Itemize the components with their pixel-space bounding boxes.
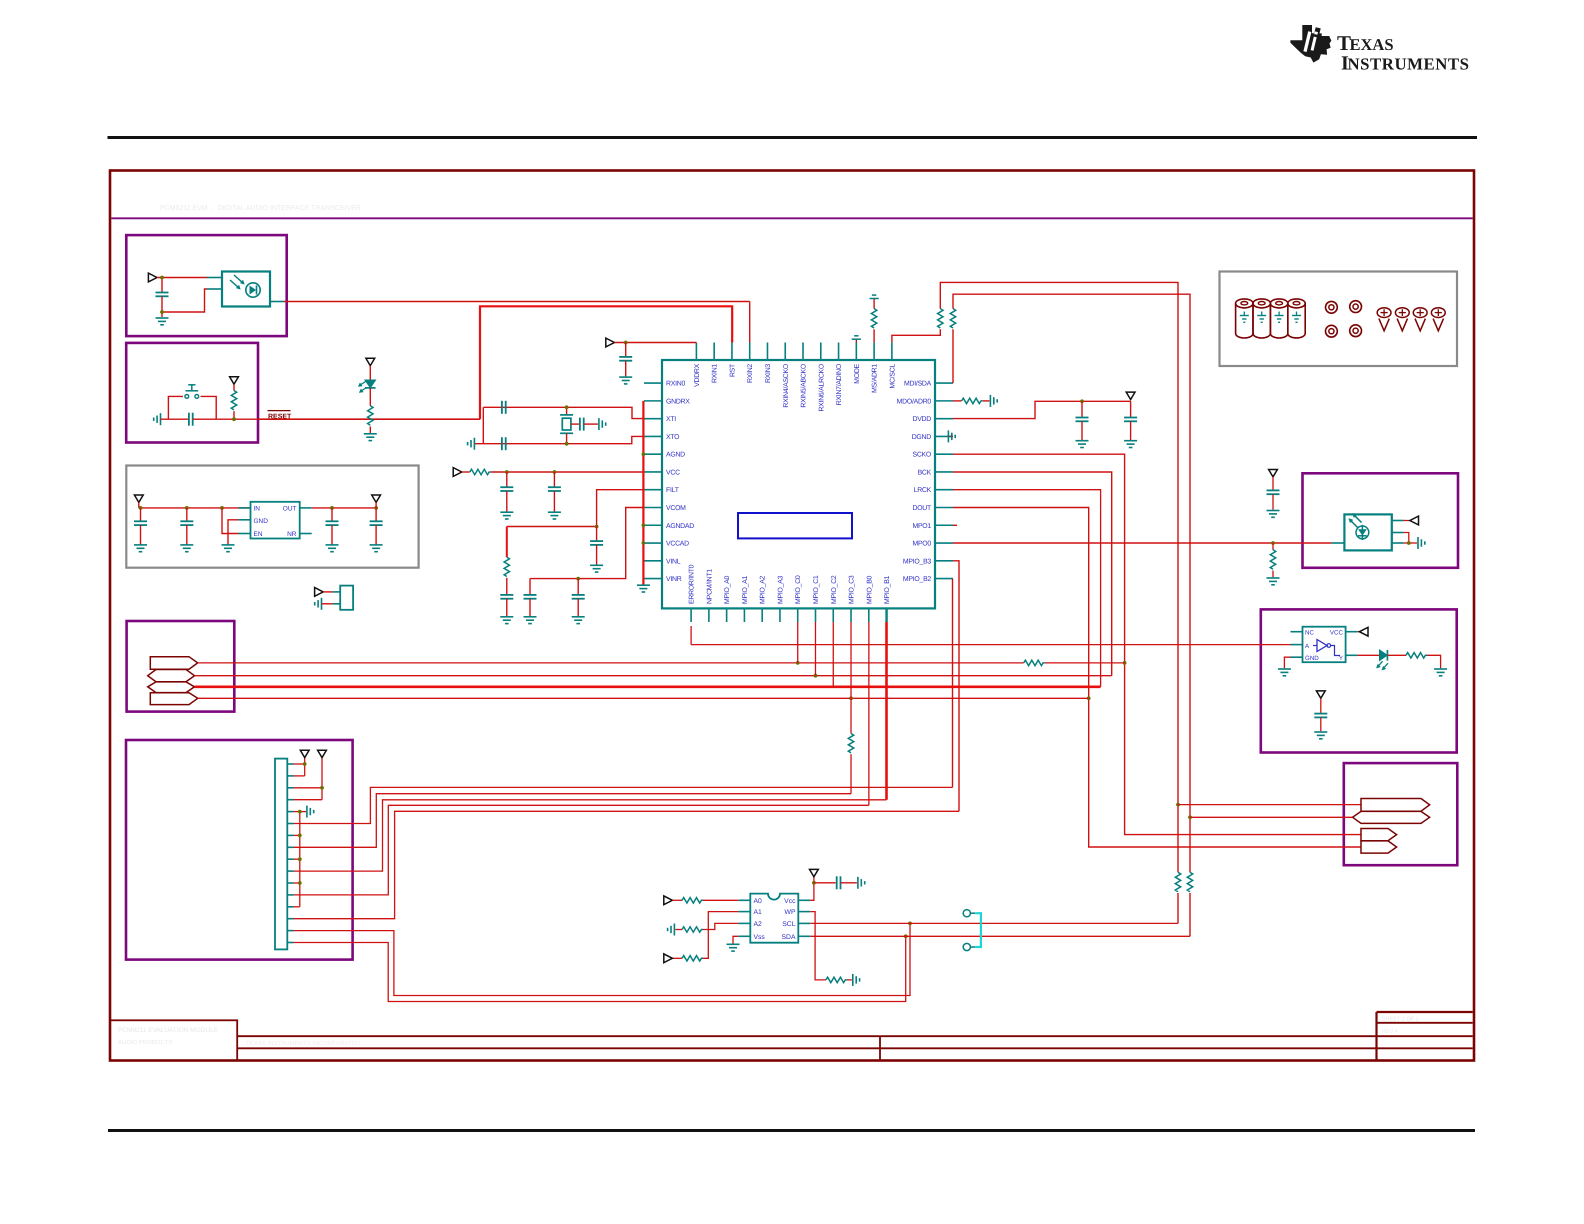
wire MPIO_B3: [953, 561, 959, 812]
output net flag block box: [1344, 763, 1458, 865]
svg-text:RXIN4/ASCKO: RXIN4/ASCKO: [783, 363, 790, 407]
net flag DOUT out: [1361, 841, 1397, 853]
header block box: [126, 740, 353, 960]
pin reg OUT wire: [300, 507, 312, 509]
page bottom rule: [108, 1129, 1475, 1132]
side ground MDO/ADR0: [989, 395, 991, 407]
net flag SCKO out: [1361, 829, 1397, 841]
pin eeprom A2: [738, 922, 750, 924]
wire MPIO_C0 net: [198, 662, 1024, 664]
svg-text:OUT: OUT: [283, 506, 297, 513]
svg-text:EXAS: EXAS: [1350, 35, 1394, 54]
svg-text:RXIN2: RXIN2: [747, 364, 754, 383]
power arrow reset pullup: [230, 377, 239, 384]
title block right box: [1375, 1012, 1377, 1061]
capacitor FILT: [596, 527, 598, 542]
ground VDDRX cap: [619, 376, 632, 378]
svg-text:GNDRX: GNDRX: [666, 398, 690, 405]
washer 4: [1350, 325, 1362, 337]
junction AGND bus: [642, 452, 646, 456]
frame inner top line: [111, 217, 1472, 219]
standoff 4: [1288, 303, 1305, 338]
pin eeprom SDA: [798, 935, 810, 937]
power arrow regulator input: [134, 495, 143, 502]
pin eeprom SCL: [798, 922, 810, 924]
capacitor inverter bypass: [1320, 698, 1322, 713]
wire VCOM: [530, 508, 644, 579]
capacitor VCC bypass 2: [553, 472, 555, 487]
wire SCKO: [953, 454, 1361, 834]
wire LRCK: [953, 490, 1101, 687]
svg-text:AGND: AGND: [666, 452, 685, 459]
net flag RXOUT1: [148, 670, 195, 682]
pin SCKO: [935, 453, 953, 455]
regulator block box: [126, 466, 418, 568]
pin VINR: [644, 578, 662, 580]
wire eeprom A0: [703, 899, 738, 901]
svg-text:MPIO_A2: MPIO_A2: [760, 575, 767, 604]
wire header p12 net: [294, 805, 869, 895]
svg-text:A: A: [1305, 643, 1310, 650]
pin J2-12: [287, 894, 293, 896]
capacitor crystal case: [571, 423, 579, 425]
wire header p5 ground: [294, 811, 307, 813]
svg-text:GND: GND: [1305, 655, 1319, 662]
pin eeprom WP: [798, 911, 810, 913]
net flag RXOUT3: [150, 693, 197, 705]
pin J2-4: [287, 799, 293, 801]
svg-text:SDA: SDA: [782, 934, 796, 941]
pin reg IN stub: [239, 507, 251, 509]
pin MPIO_A1: [743, 608, 745, 622]
pin VCOM: [644, 506, 662, 508]
resistor LED series: [369, 388, 371, 406]
resistor SDA pullup: [950, 309, 955, 328]
wire DOUT: [953, 508, 1361, 848]
wire LED D2 to ground: [1427, 655, 1441, 668]
wire crystal left link: [482, 407, 484, 443]
jumper J3 pads: [963, 910, 970, 917]
pin RXIN1: [713, 343, 715, 361]
wire header p3 p4 to power: [294, 787, 323, 789]
pin MPIO_A2: [761, 608, 763, 622]
svg-text:NC: NC: [1305, 629, 1314, 636]
svg-text:MC/SCL: MC/SCL: [889, 364, 896, 389]
junction FILT: [595, 525, 599, 529]
resistor MS/ADR1 pulldown: [873, 329, 875, 342]
svg-text:DGND: DGND: [912, 434, 932, 441]
capacitor optical receiver decoupling: [161, 278, 163, 293]
resistor eeprom A0: [672, 899, 682, 901]
wire MPIO_C3 net: [198, 697, 1089, 699]
resistor LED D2 series: [1387, 654, 1406, 656]
junction reset node: [232, 417, 236, 421]
net flag block box: [127, 621, 235, 712]
capacitor FILT RC: [506, 578, 508, 595]
svg-text:GND: GND: [254, 518, 269, 525]
power arrow VDDRX: [606, 338, 615, 347]
pin inverter VCC: [1346, 631, 1358, 633]
svg-text:RXIN1: RXIN1: [712, 364, 719, 383]
pin J2-9: [287, 858, 293, 860]
standoff 2: [1253, 303, 1270, 338]
junction SDA branch: [1188, 815, 1192, 819]
optical transmitter module U5 TOTX: [1331, 542, 1344, 544]
standoff 1: [1236, 303, 1253, 338]
svg-text:Y: Y: [1339, 655, 1343, 662]
wire MPIO_B1 drop thick: [885, 622, 888, 800]
svg-text:IN: IN: [254, 506, 261, 513]
pin J2-11: [287, 882, 293, 884]
junction MPIO_C0 drop: [796, 661, 800, 665]
inverter gate symbol: [1317, 640, 1327, 652]
pin DOUT: [935, 506, 953, 508]
svg-text:VCC: VCC: [666, 469, 680, 476]
page top rule: [108, 136, 1478, 139]
pin RST: [731, 343, 733, 361]
washer 2: [1350, 301, 1362, 313]
optical receiver block box: [126, 235, 286, 336]
pin BCK: [935, 471, 953, 473]
pin eeprom A1: [738, 911, 750, 913]
pin RXIN2: [749, 343, 751, 361]
capacitor reset debounce: [188, 413, 190, 426]
pin J2-14: [287, 918, 293, 920]
pin eeprom Vcc: [798, 899, 810, 901]
svg-text:MPIO_B3: MPIO_B3: [903, 558, 932, 565]
svg-text:Vss: Vss: [754, 934, 766, 941]
side ground header: [306, 806, 308, 818]
regulator U3 body: [251, 502, 300, 539]
wire reset rail right: [193, 418, 258, 420]
pin J2-2: [287, 775, 293, 777]
net label RESET: [268, 410, 291, 412]
wire MPO0: [953, 542, 1331, 544]
net flag SCL out: [1361, 799, 1430, 812]
svg-text:MODE: MODE: [854, 363, 861, 383]
pin J2-3: [287, 787, 293, 789]
pin DGND: [935, 435, 953, 437]
resistor SCL pullup: [938, 309, 943, 328]
net flag RXOUT2: [148, 682, 195, 693]
capacitor reg input 1: [140, 508, 142, 521]
ground inverter: [1278, 668, 1291, 670]
standoff 3: [1270, 303, 1287, 338]
side ground eeprom cap: [857, 877, 859, 889]
ground VCC cap2: [548, 511, 561, 513]
junction crystal: [565, 405, 569, 409]
capacitor reg output 1: [331, 508, 333, 521]
wire header p15 to SCL: [294, 923, 911, 995]
wire SDA to flag: [1190, 816, 1353, 818]
wire RESET to RST pin: [258, 418, 480, 420]
svg-text:PCM9211 EVM - DIGITAL AUDIO: PCM9211 EVM - DIGITAL AUDIO INTERFACE TR…: [160, 205, 361, 212]
junction DVDD cap: [1080, 399, 1084, 403]
svg-text:VINL: VINL: [666, 558, 681, 565]
capacitor VCOM 1: [529, 579, 531, 595]
wire eeprom WP: [810, 912, 826, 980]
pin RXIN5/ABCKO: [802, 343, 804, 361]
wire DGND: [947, 435, 953, 437]
pin MPIO_B0: [868, 608, 870, 622]
pin reg GND wire: [239, 519, 251, 521]
side ground eeprom WP: [852, 974, 854, 986]
svg-text:SHEET 1 OF 1: SHEET 1 OF 1: [1382, 1017, 1419, 1023]
svg-text:MDO/ADR0: MDO/ADR0: [897, 398, 932, 405]
resistor FILT: [506, 527, 508, 558]
svg-text:FILT: FILT: [666, 487, 680, 494]
svg-text:MPO1: MPO1: [912, 523, 931, 530]
svg-text:MPIO_C3: MPIO_C3: [849, 575, 856, 604]
wire SCL bus: [940, 282, 1178, 872]
power arrow eeprom A0: [664, 896, 673, 905]
wire SCL bus lower: [1177, 893, 1179, 923]
svg-text:MPIO_B1: MPIO_B1: [884, 575, 891, 604]
power arrow eeprom Vcc: [810, 869, 819, 876]
svg-text:XTO: XTO: [666, 434, 680, 441]
resistor MDO/ADR0: [962, 398, 983, 403]
capacitor crystal load top: [501, 401, 503, 414]
ground strap MS/ADR1: [870, 298, 879, 300]
wire MC/SCL to pullup: [892, 329, 940, 342]
power arrow LED supply: [366, 358, 375, 365]
pin MPIO_B2: [935, 578, 953, 580]
wire optical receiver pin2: [162, 289, 207, 312]
svg-text:REV A: REV A: [1382, 1029, 1399, 1035]
wire TX gnd pin lower: [1392, 542, 1404, 544]
wire J1 power: [323, 591, 332, 593]
capacitor DVDD bypass 2: [1130, 401, 1132, 417]
pin VCC: [644, 471, 662, 473]
pin J2-1: [287, 763, 293, 765]
wire MPIO_C1 net: [195, 675, 1112, 677]
pin VCCAD: [644, 542, 662, 544]
ground regulator: [222, 544, 235, 546]
svg-text:A1: A1: [754, 909, 763, 916]
screw 4: [1431, 308, 1445, 318]
svg-text:MPIO_C2: MPIO_C2: [831, 575, 838, 604]
power arrow TX cap: [1269, 470, 1278, 477]
wire XTI net: [483, 407, 644, 418]
svg-text:MPIO_A0: MPIO_A0: [724, 575, 731, 604]
svg-text:Vcc: Vcc: [784, 898, 796, 905]
wire MDO/ADR0: [953, 400, 962, 402]
wire FILT: [507, 490, 644, 527]
pin LRCK: [935, 489, 953, 491]
capacitor TX bypass: [1272, 477, 1274, 491]
junction header ground bus: [298, 810, 302, 814]
wire SCL to flag: [1178, 804, 1361, 806]
inverter U6 body: [1303, 627, 1346, 663]
pin MPIO_C2: [832, 608, 834, 622]
ground strap MODE: [855, 339, 857, 342]
capacitor reg input 2: [186, 508, 188, 521]
svg-text:MS/ADR1: MS/ADR1: [872, 364, 879, 393]
pin MPIO_A3: [779, 608, 781, 622]
junction VCC caps: [505, 470, 509, 474]
svg-text:VINR: VINR: [666, 576, 682, 583]
pin MPIO_B1: [885, 608, 887, 622]
junction reg in: [139, 506, 143, 510]
side ground TX: [1417, 537, 1419, 549]
wire MPIO_C2 net thick: [195, 685, 1101, 688]
power arrow VCC: [453, 468, 462, 477]
pin RXIN6/ALRCKO: [820, 343, 822, 361]
pin VDDRX: [695, 343, 697, 361]
schematic frame border: [110, 171, 1474, 1061]
svg-text:DOUT: DOUT: [912, 505, 932, 512]
pin inverter NC stub: [1291, 631, 1303, 633]
pushbutton S1: [185, 395, 189, 399]
ground reg out cap1: [326, 544, 339, 546]
svg-text:MPIO_C0: MPIO_C0: [795, 575, 802, 604]
svg-text:NPCM/INT1: NPCM/INT1: [706, 569, 713, 604]
svg-text:VDDRX: VDDRX: [694, 363, 701, 387]
IC U1 part number box: [738, 513, 852, 538]
wire AGND bus: [642, 401, 644, 585]
svg-text:TEXAS INSTRUMENTS INCORPORATED: TEXAS INSTRUMENTS INCORPORATED: [246, 1040, 361, 1047]
pin MPIO_C0: [797, 608, 799, 622]
capacitor eeprom bypass: [814, 882, 836, 884]
power arrow header 2: [318, 750, 327, 757]
junction header p1: [303, 762, 307, 766]
pin MPO1: [935, 524, 953, 526]
LED D1: [369, 366, 371, 380]
ground reg out cap2: [370, 544, 383, 546]
wire MPIO_B0 drop: [868, 622, 870, 805]
ground AGND bus: [637, 584, 650, 586]
ground reg input cap1: [134, 544, 147, 546]
ground eeprom Vss: [727, 943, 740, 945]
resistor TX pulldown: [1272, 543, 1274, 550]
optical transmitter block box: [1303, 473, 1459, 568]
pin J2-7: [287, 834, 293, 836]
wire header p14 net: [294, 811, 960, 918]
power arrow eeprom A1: [664, 954, 673, 963]
svg-text:MPIO_A3: MPIO_A3: [777, 575, 784, 604]
svg-text:MPO0: MPO0: [912, 541, 931, 548]
resistor eeprom WP: [826, 977, 847, 982]
svg-text:RST: RST: [729, 363, 736, 377]
screw 2: [1395, 308, 1409, 318]
pin NPCM/INT1: [708, 608, 710, 622]
power arrow VCC input to optical receiver: [148, 273, 157, 282]
net flag SDA out: [1353, 811, 1430, 823]
wire header p10 net: [294, 800, 887, 871]
wire TX vcc pin: [1392, 520, 1404, 522]
pin RXIN3: [766, 343, 768, 361]
junction SCKO: [1123, 661, 1127, 665]
ground inverter cap: [1314, 731, 1327, 733]
pin XTI: [644, 418, 662, 420]
pin AGNDAD: [644, 524, 662, 526]
svg-text:RXIN5/ABCKO: RXIN5/ABCKO: [801, 363, 808, 407]
resistor reset pullup: [233, 384, 235, 390]
wire header p1 p2 to power: [294, 763, 305, 765]
ground optical receiver cap: [156, 317, 169, 319]
power arrow J1: [315, 588, 324, 597]
ground TX cap: [1267, 510, 1280, 512]
pin J2-5: [287, 811, 293, 813]
ground LED: [364, 433, 377, 435]
power arrow header 1: [300, 750, 309, 757]
header J2 body: [275, 759, 287, 950]
svg-text:RXIN0: RXIN0: [666, 381, 685, 388]
junction SCL tap: [908, 922, 912, 926]
title block row line 2: [237, 1047, 1376, 1049]
svg-text:VCCAD: VCCAD: [666, 541, 689, 548]
pin MPIO_C1: [814, 608, 816, 622]
junction MPO0 TX: [1271, 541, 1275, 545]
svg-text:RXIN3: RXIN3: [765, 364, 772, 383]
ground FILT cap: [590, 564, 603, 566]
pin GNDRX: [644, 400, 662, 402]
resistor SCL series: [1175, 872, 1180, 891]
capacitor reg output 2: [375, 508, 377, 521]
junction optical receiver: [160, 276, 164, 280]
pin MDI/SDA: [935, 382, 953, 384]
power arrow inverter cap: [1316, 691, 1325, 698]
wire header p16 to SDA: [294, 936, 906, 1001]
junction MPIO_C3 drop: [849, 696, 853, 700]
pin J2-10: [287, 870, 293, 872]
wire eeprom A2: [703, 923, 738, 929]
svg-text:MPIO_B2: MPIO_B2: [903, 576, 932, 583]
svg-text:BCK: BCK: [918, 469, 932, 476]
pin MDO/ADR0: [935, 400, 953, 402]
side ground crystal rail: [473, 438, 475, 450]
svg-text:EN: EN: [254, 531, 263, 538]
capacitor VCC bypass 1: [506, 472, 508, 487]
svg-text:A2: A2: [754, 921, 763, 928]
pin VINL: [644, 560, 662, 562]
resistor eeprom A2: [682, 927, 703, 932]
side ground crystal case: [598, 418, 600, 430]
wire MPIO_B2: [952, 579, 954, 788]
junction TX ground: [1407, 541, 1411, 545]
pin MPIO_B3: [935, 560, 953, 562]
svg-text:MPIO_B0: MPIO_B0: [866, 575, 873, 604]
pin MODE: [855, 343, 857, 361]
pushbutton S1 legs: [168, 396, 183, 419]
wire regulator input rail: [138, 502, 140, 508]
wire J1 ground: [322, 603, 333, 605]
pin MS/ADR1: [873, 343, 875, 361]
washer 1: [1326, 301, 1338, 313]
wire MPO1 stub: [953, 524, 957, 526]
pin J2-13: [287, 906, 293, 908]
pin RXIN7/ADINO: [838, 343, 840, 361]
svg-text:AUDIO PRODUCTS: AUDIO PRODUCTS: [118, 1039, 172, 1046]
screw 1: [1377, 308, 1391, 318]
pin J2-6: [287, 823, 293, 825]
junction VDDRX cap: [624, 341, 628, 345]
wire header ground bus: [299, 812, 301, 907]
svg-text:PCM9211 EVALUATION MODULE: PCM9211 EVALUATION MODULE: [118, 1027, 219, 1034]
pin RXIN0: [644, 382, 662, 384]
svg-text:ERROR/INT0: ERROR/INT0: [689, 564, 696, 604]
pin inverter GND: [1291, 656, 1303, 658]
washer 3: [1326, 325, 1338, 337]
wire reset rail left: [161, 418, 189, 420]
ground LED D2: [1434, 668, 1447, 670]
junction header p3: [320, 786, 324, 790]
wire VCC: [491, 471, 644, 473]
svg-text:VCC: VCC: [1330, 629, 1344, 636]
wire VDDRX: [614, 342, 696, 344]
title block bottom-left box: [110, 1020, 237, 1060]
wire MDI/SDA to bus: [952, 329, 954, 383]
